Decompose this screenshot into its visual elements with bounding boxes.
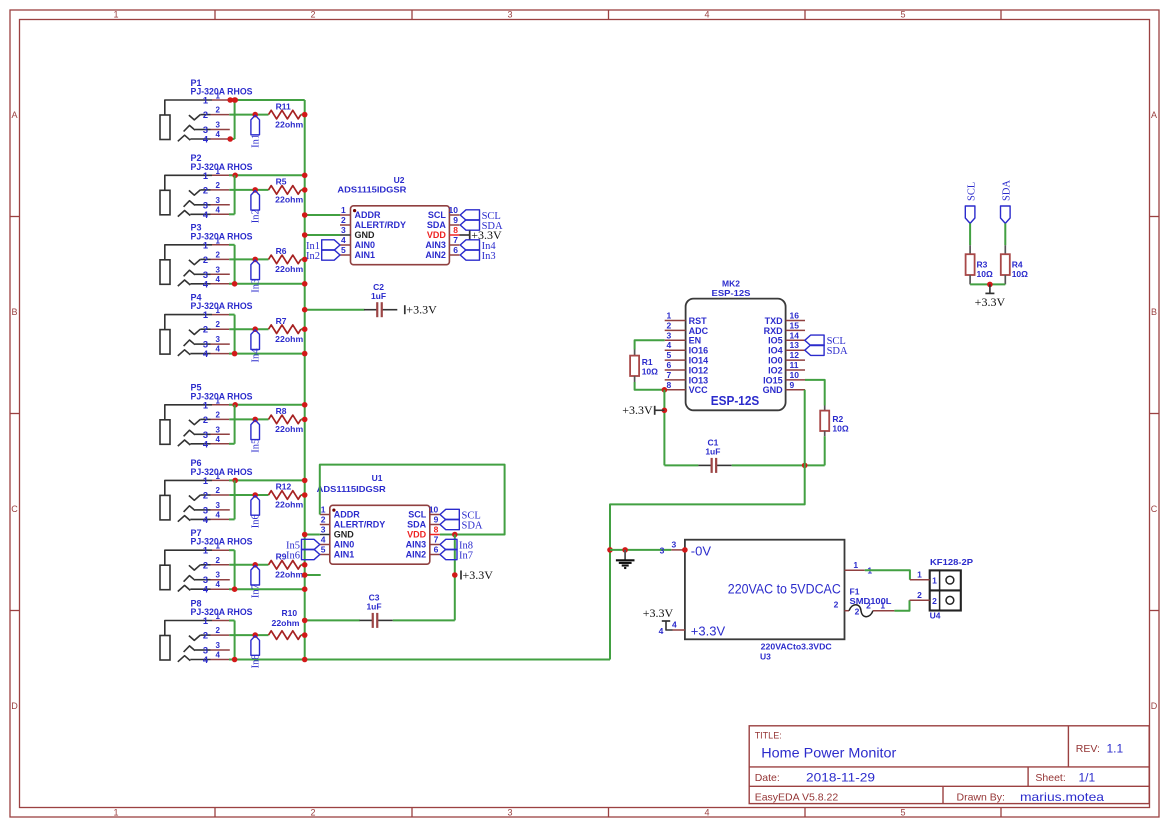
MK2 pin 1 RST xyxy=(665,320,686,322)
svg-text:ESP-12S: ESP-12S xyxy=(711,393,760,408)
power flag +3.3V (top right) xyxy=(989,284,991,293)
svg-text:1: 1 xyxy=(932,576,937,586)
wire P2 pin1-pin4 vertical xyxy=(234,175,236,214)
svg-text:SDA: SDA xyxy=(1002,180,1013,201)
MK2 pin 4 IO16 xyxy=(665,349,686,351)
svg-text:1/1: 1/1 xyxy=(1079,770,1096,784)
wire P4 pin1-pin4 vertical xyxy=(234,315,236,354)
svg-text:EasyEDA V5.8.22: EasyEDA V5.8.22 xyxy=(755,792,839,804)
wire P4 pin2 signal xyxy=(229,328,268,330)
svg-text:1: 1 xyxy=(917,569,922,579)
wire P8 pin1-pin4 vertical xyxy=(234,621,236,660)
svg-text:In5: In5 xyxy=(250,439,261,453)
svg-text:SDA: SDA xyxy=(827,346,848,357)
junction P1 pin2 / In1 xyxy=(252,112,258,118)
svg-text:+3.3V: +3.3V xyxy=(691,624,726,639)
svg-text:2: 2 xyxy=(216,250,221,259)
U1 pin 4 AIN0 xyxy=(320,544,330,546)
wire GND bus to U1 GND xyxy=(305,534,320,536)
connector P1 PJ-320A RHOS xyxy=(160,78,253,145)
net flag SDA at MK2 IO4 xyxy=(805,345,824,355)
svg-text:Home Power Monitor: Home Power Monitor xyxy=(761,746,897,761)
svg-text:3: 3 xyxy=(667,330,672,340)
svg-text:2: 2 xyxy=(932,596,937,606)
svg-text:5: 5 xyxy=(900,10,905,20)
svg-text:1: 1 xyxy=(216,542,221,551)
svg-text:3: 3 xyxy=(216,335,221,344)
svg-text:4: 4 xyxy=(203,279,209,289)
U3 pin 1 xyxy=(845,569,865,571)
wire P7 pin2 signal xyxy=(229,564,268,566)
svg-text:RXD: RXD xyxy=(764,326,784,336)
svg-text:10: 10 xyxy=(790,370,800,380)
svg-text:4: 4 xyxy=(321,535,326,545)
wire GND bus to U2 GND xyxy=(305,234,340,236)
power flag +3.3V at U2 VDD xyxy=(469,231,471,240)
svg-text:2: 2 xyxy=(310,10,315,20)
junction P4 pin2 / In4 xyxy=(252,326,258,332)
svg-text:RST: RST xyxy=(689,316,708,326)
svg-text:VCC: VCC xyxy=(689,385,709,395)
svg-text:IO16: IO16 xyxy=(689,346,709,356)
svg-text:TITLE:: TITLE: xyxy=(755,730,782,740)
op IC U2 ADS1115IDGSR xyxy=(351,206,450,265)
wire U2 VDD to +3.3V xyxy=(460,234,470,236)
svg-text:IO4: IO4 xyxy=(768,346,783,356)
wire SCL flag to R3 xyxy=(969,223,971,245)
svg-text:2: 2 xyxy=(834,600,839,610)
svg-text:U1: U1 xyxy=(372,473,383,483)
svg-text:4: 4 xyxy=(216,275,221,284)
svg-text:4: 4 xyxy=(216,651,221,660)
MK2 pin 3 EN xyxy=(665,339,686,341)
svg-text:R5: R5 xyxy=(276,177,287,187)
svg-text:4: 4 xyxy=(704,808,709,818)
svg-text:6: 6 xyxy=(434,545,439,555)
wire P1 pin1-pin4 vertical xyxy=(234,100,236,139)
net flag In7 xyxy=(251,565,260,585)
svg-text:22ohm: 22ohm xyxy=(275,334,303,344)
svg-text:5: 5 xyxy=(900,808,905,818)
wire GND vertical to P8 pin4 row xyxy=(609,550,611,660)
junction C1 / GND vertical xyxy=(802,463,808,469)
MK2 pin 13 IO4 xyxy=(786,349,805,351)
svg-text:ALERT/RDY: ALERT/RDY xyxy=(355,220,407,230)
svg-text:In3: In3 xyxy=(250,279,261,293)
MK2 pin 7 IO13 xyxy=(665,379,686,381)
junction +3.3V flag at MK2 xyxy=(662,408,668,414)
svg-text:IO5: IO5 xyxy=(768,336,783,346)
svg-text:1: 1 xyxy=(203,400,208,410)
junction P1 pin1 local vertical xyxy=(232,97,238,103)
wire U3 pin1 to U4 pin1 xyxy=(865,570,910,580)
svg-text:8: 8 xyxy=(667,380,672,390)
svg-text:In1: In1 xyxy=(250,134,261,148)
svg-text:R10: R10 xyxy=(282,608,298,618)
svg-text:14: 14 xyxy=(790,330,800,340)
svg-text:22ohm: 22ohm xyxy=(275,195,303,205)
svg-text:U4: U4 xyxy=(930,611,941,621)
connector P7 PJ-320A RHOS xyxy=(160,528,253,595)
svg-text:4: 4 xyxy=(203,515,209,525)
junction U1 VDD +3.3V xyxy=(452,532,458,538)
svg-text:3: 3 xyxy=(216,265,221,274)
wire R12 to GND bus xyxy=(301,494,305,496)
U2 pin 4 AIN0 xyxy=(340,244,351,246)
svg-text:2: 2 xyxy=(216,486,221,495)
net flag In3 xyxy=(251,260,260,280)
svg-text:GND: GND xyxy=(763,385,784,395)
svg-text:SDA: SDA xyxy=(462,520,483,531)
net flag In5 xyxy=(251,420,260,440)
svg-text:ESP-12S: ESP-12S xyxy=(712,288,751,298)
net flag SDA at U2 pin9 xyxy=(460,220,479,230)
svg-text:3: 3 xyxy=(203,646,208,656)
svg-text:10Ω: 10Ω xyxy=(977,269,993,279)
svg-text:ADS1115IDGSR: ADS1115IDGSR xyxy=(317,484,386,494)
svg-text:KF128-2P: KF128-2P xyxy=(930,557,973,567)
svg-text:10: 10 xyxy=(449,205,459,215)
U2 pin 6 AIN2 xyxy=(449,254,459,256)
svg-text:1: 1 xyxy=(203,96,208,106)
svg-text:AIN2: AIN2 xyxy=(425,250,446,260)
wire U1 VDD to C3 / +3.3V xyxy=(454,535,456,621)
MK2 pin 10 IO15 xyxy=(786,379,805,381)
wire P6 pin2 signal xyxy=(229,494,268,496)
svg-text:8: 8 xyxy=(434,525,439,535)
wire R10 to GND bus xyxy=(301,634,305,636)
wire U1 ADDR to VDD (+3.3V loop) xyxy=(320,465,505,535)
svg-text:1: 1 xyxy=(216,472,221,481)
MK2 pin 14 IO5 xyxy=(786,339,805,341)
wire R9 to GND bus xyxy=(301,564,305,566)
svg-text:2: 2 xyxy=(917,590,922,600)
U3 pin 4 (+3.3V) xyxy=(673,629,685,631)
connector P5 PJ-320A RHOS xyxy=(160,383,253,450)
wire R1 to MK2 VCC xyxy=(635,382,665,390)
wire R8 to GND bus xyxy=(301,418,305,420)
svg-text:PJ-320A RHOS: PJ-320A RHOS xyxy=(191,301,253,311)
title block xyxy=(749,726,1149,804)
svg-text:6: 6 xyxy=(667,360,672,370)
svg-text:3: 3 xyxy=(216,571,221,580)
wire P7 pin4 to GND bus xyxy=(229,588,305,590)
net flag In4 xyxy=(251,330,260,350)
wire GND bus to U2 ADDR xyxy=(305,214,340,216)
svg-text:1uF: 1uF xyxy=(705,447,720,457)
svg-text:2: 2 xyxy=(203,560,208,570)
net flag In8 xyxy=(251,636,260,656)
wire GND bus to C3 xyxy=(305,619,360,621)
svg-text:marius.motea: marius.motea xyxy=(1020,790,1104,804)
svg-text:1: 1 xyxy=(880,601,885,611)
svg-text:2: 2 xyxy=(203,110,208,120)
svg-text:ADS1115IDGSR: ADS1115IDGSR xyxy=(337,185,406,195)
U2 pin 10 SCL xyxy=(449,214,459,216)
wire R3/R4 common +3.3V xyxy=(970,283,1005,285)
wire GND to U3 pin3 xyxy=(610,549,671,551)
wire P1 pin4 to local vertical xyxy=(229,138,235,140)
svg-text:AIN0: AIN0 xyxy=(334,540,355,550)
net flag SCL at U2 pin10 xyxy=(460,210,479,220)
U2 pin 1 ADDR xyxy=(340,214,351,216)
svg-text:11: 11 xyxy=(790,360,799,370)
svg-text:1: 1 xyxy=(341,205,346,215)
svg-text:9: 9 xyxy=(453,215,458,225)
svg-text:1: 1 xyxy=(203,310,208,320)
svg-text:SDA: SDA xyxy=(427,220,447,230)
net flag In2 xyxy=(251,191,260,211)
svg-text:7: 7 xyxy=(453,235,458,245)
svg-text:PJ-320A RHOS: PJ-320A RHOS xyxy=(191,537,253,547)
svg-text:+3.3V: +3.3V xyxy=(463,568,494,582)
svg-text:SCL: SCL xyxy=(966,182,977,201)
svg-text:+3.3V: +3.3V xyxy=(622,403,653,417)
net flag In8 at U1 pin7 xyxy=(440,539,457,549)
svg-text:IO0: IO0 xyxy=(768,356,783,366)
U2 pin 7 AIN3 xyxy=(449,244,459,246)
svg-text:3: 3 xyxy=(203,430,208,440)
svg-text:4: 4 xyxy=(667,340,672,350)
svg-text:REV:: REV: xyxy=(1076,743,1100,755)
junction R7 output on bus xyxy=(302,326,308,332)
svg-text:2: 2 xyxy=(216,181,221,190)
U1 pin 6 AIN2 xyxy=(430,554,440,556)
svg-text:3: 3 xyxy=(321,525,326,535)
connector P4 PJ-320A RHOS xyxy=(160,292,253,359)
svg-text:+3.3V: +3.3V xyxy=(975,295,1006,309)
svg-text:In7: In7 xyxy=(459,550,473,561)
wire P5 pin4 to local vertical xyxy=(229,443,235,445)
svg-text:1: 1 xyxy=(853,560,858,570)
net flag In1 at U2 pin4 xyxy=(322,240,340,250)
svg-text:VDD: VDD xyxy=(427,230,447,240)
net flag In1 xyxy=(251,115,260,135)
net flag In3 at U2 pin6 xyxy=(460,250,479,260)
MK2 pin 6 IO12 xyxy=(665,369,686,371)
U1 pin 7 AIN3 xyxy=(430,544,440,546)
net flag In6 xyxy=(251,496,260,516)
svg-text:3: 3 xyxy=(216,501,221,510)
svg-text:C: C xyxy=(11,504,18,514)
svg-text:2: 2 xyxy=(855,606,860,616)
connector P6 PJ-320A RHOS xyxy=(160,458,253,525)
svg-text:1: 1 xyxy=(667,311,672,321)
svg-text:1: 1 xyxy=(216,236,221,245)
svg-text:4: 4 xyxy=(216,510,221,519)
svg-text:In8: In8 xyxy=(250,654,261,668)
svg-text:AIN3: AIN3 xyxy=(406,540,427,550)
resistor R4 10 ohm xyxy=(1004,245,1006,254)
junction R11 output on bus xyxy=(302,112,308,118)
svg-text:4: 4 xyxy=(203,439,209,449)
junction P3 pin2 / In3 xyxy=(252,257,258,263)
svg-text:AIN0: AIN0 xyxy=(355,240,376,250)
svg-text:2: 2 xyxy=(216,556,221,565)
svg-text:7: 7 xyxy=(434,535,439,545)
svg-text:12: 12 xyxy=(790,350,800,360)
svg-text:3: 3 xyxy=(203,200,208,210)
wire P4 pin1 to local vertical xyxy=(229,314,235,316)
svg-text:13: 13 xyxy=(790,340,800,350)
svg-text:In2: In2 xyxy=(306,251,320,262)
wire R2 bottom to C1 row xyxy=(824,436,826,465)
svg-text:3: 3 xyxy=(203,125,208,135)
svg-text:22ohm: 22ohm xyxy=(275,424,303,434)
svg-text:VDD: VDD xyxy=(407,530,427,540)
net flag In7 at U1 pin6 xyxy=(440,549,457,559)
net flag SDA (top right) xyxy=(1001,206,1011,223)
svg-text:SCL: SCL xyxy=(408,510,427,520)
svg-text:In6: In6 xyxy=(250,514,261,528)
wire P1 pin1 to GND bus xyxy=(229,99,305,101)
U3 pin 3 (-0V) xyxy=(671,549,685,551)
svg-text:R1: R1 xyxy=(642,357,653,367)
wire P7 pin1 to local vertical xyxy=(229,549,235,551)
svg-text:R7: R7 xyxy=(276,316,287,326)
svg-text:5: 5 xyxy=(321,545,326,555)
svg-text:22ohm: 22ohm xyxy=(275,119,303,129)
svg-text:3: 3 xyxy=(507,10,512,20)
junction ground symbol xyxy=(622,547,628,553)
svg-text:R12: R12 xyxy=(276,482,292,492)
svg-text:R11: R11 xyxy=(276,101,291,111)
svg-text:IO13: IO13 xyxy=(689,375,709,385)
svg-text:3: 3 xyxy=(216,196,221,205)
svg-text:3: 3 xyxy=(203,270,208,280)
svg-text:1: 1 xyxy=(216,92,221,101)
U1 pin 8 VDD xyxy=(430,534,440,536)
wire GND bus vertical xyxy=(304,100,306,660)
svg-text:ADC: ADC xyxy=(689,326,709,336)
wire P1 pin2 signal xyxy=(229,114,268,116)
svg-text:4: 4 xyxy=(203,135,209,145)
svg-text:PJ-320A RHOS: PJ-320A RHOS xyxy=(191,231,253,241)
power module U3 220VAC to 3.3VDC xyxy=(685,540,845,640)
svg-text:1: 1 xyxy=(113,10,118,20)
wire P3 pin2 signal xyxy=(229,258,268,260)
svg-text:A: A xyxy=(11,110,17,120)
svg-text:1: 1 xyxy=(216,306,221,315)
wire P7 pin1-pin4 vertical xyxy=(234,550,236,589)
net flag In2 at U2 pin5 xyxy=(322,250,340,260)
MK2 pin 9 GND xyxy=(786,389,805,391)
power flag +3.3V at U3 pin4 xyxy=(666,621,673,630)
svg-text:1: 1 xyxy=(203,546,208,556)
wire GND bus to C2 xyxy=(305,309,365,311)
U2 pin 3 GND xyxy=(340,234,351,236)
svg-text:1.1: 1.1 xyxy=(1107,742,1124,756)
svg-text:MK2: MK2 xyxy=(722,278,740,288)
U4 pin 1 xyxy=(910,579,930,581)
ground symbol xyxy=(624,550,626,560)
svg-text:1: 1 xyxy=(216,167,221,176)
svg-text:2: 2 xyxy=(321,515,326,525)
wire F1 to U4 pin2 xyxy=(894,600,909,610)
wire P4 pin4 to GND bus xyxy=(229,353,305,355)
U4 pin 2 xyxy=(910,599,930,601)
svg-text:1: 1 xyxy=(203,171,208,181)
junction +3.3V flag near U1 xyxy=(452,572,458,578)
svg-text:3: 3 xyxy=(216,425,221,434)
svg-text:In7: In7 xyxy=(250,584,261,598)
svg-text:1: 1 xyxy=(321,505,326,515)
svg-text:GND: GND xyxy=(334,530,355,540)
svg-text:EN: EN xyxy=(689,336,702,346)
svg-text:15: 15 xyxy=(790,320,800,330)
MK2 pin 2 ADC xyxy=(665,329,686,331)
wire R6 to GND bus xyxy=(301,258,305,260)
U2 pin 2 ALERT/RDY xyxy=(340,224,351,226)
wire to C1 left xyxy=(664,464,698,466)
svg-text:22ohm: 22ohm xyxy=(275,500,303,510)
svg-text:2: 2 xyxy=(866,601,871,611)
junction R9 output on bus xyxy=(302,562,308,568)
svg-text:16: 16 xyxy=(790,311,800,321)
wire MK2 GND down to supply -0V xyxy=(610,390,805,550)
MK2 pin 12 IO0 xyxy=(786,359,805,361)
junction R10 output on bus xyxy=(302,632,308,638)
wire P8 pin4 to GND bus xyxy=(229,659,610,661)
junction R6 output on bus xyxy=(302,257,308,263)
svg-text:SCL: SCL xyxy=(428,210,447,220)
wire P5 pin1-pin4 vertical xyxy=(234,405,236,444)
svg-text:R2: R2 xyxy=(832,414,843,424)
svg-text:4: 4 xyxy=(203,585,209,595)
svg-text:3: 3 xyxy=(216,121,221,130)
wire P3 pin4 to GND bus xyxy=(229,283,305,285)
svg-text:8: 8 xyxy=(453,225,458,235)
U2 pin 9 SDA xyxy=(449,224,459,226)
svg-text:PJ-320A RHOS: PJ-320A RHOS xyxy=(191,87,253,97)
svg-text:7: 7 xyxy=(667,370,672,380)
wire MK2 EN to R1 xyxy=(635,340,665,349)
U3 pin 2 xyxy=(845,610,850,612)
svg-text:9: 9 xyxy=(790,380,795,390)
svg-text:-0V: -0V xyxy=(691,543,712,558)
U2 pin 8 VDD xyxy=(449,234,459,236)
wire +3.3V flag stub xyxy=(655,409,665,411)
svg-text:U3: U3 xyxy=(760,651,771,661)
connector P8 PJ-320A RHOS xyxy=(160,598,253,665)
wire C1 right to R2 bottom xyxy=(732,464,825,466)
U2 pin 5 AIN1 xyxy=(340,254,351,256)
svg-text:22ohm: 22ohm xyxy=(272,618,300,628)
svg-text:22ohm: 22ohm xyxy=(275,264,303,274)
svg-text:3: 3 xyxy=(672,540,677,550)
svg-text:3: 3 xyxy=(507,808,512,818)
U1 pin 2 ALERT/RDY xyxy=(320,524,330,526)
junction P8 pin2 / In8 xyxy=(252,632,258,638)
svg-text:4: 4 xyxy=(704,10,709,20)
junction R8 output on bus xyxy=(302,417,308,423)
power flag +3.3V at C2 xyxy=(404,305,406,314)
svg-text:AIN1: AIN1 xyxy=(355,250,376,260)
svg-text:B: B xyxy=(1151,307,1157,317)
svg-text:2: 2 xyxy=(216,106,221,115)
svg-text:2: 2 xyxy=(203,325,208,335)
svg-text:2: 2 xyxy=(216,410,221,419)
svg-text:2: 2 xyxy=(203,631,208,641)
wire F1 to corner xyxy=(873,610,894,612)
frame row ticks xyxy=(10,216,20,218)
U1 pin 3 GND xyxy=(320,534,330,536)
svg-text:1: 1 xyxy=(203,476,208,486)
svg-text:4: 4 xyxy=(203,349,209,359)
svg-text:9: 9 xyxy=(434,515,439,525)
svg-text:F1: F1 xyxy=(850,586,860,596)
svg-text:4: 4 xyxy=(203,655,209,665)
